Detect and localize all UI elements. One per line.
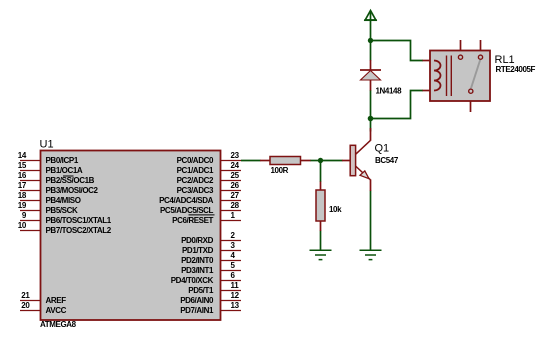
svg-text:17: 17 [18, 181, 27, 190]
svg-text:ATMEGA8: ATMEGA8 [40, 320, 77, 329]
svg-text:PB2/SS/OC1B: PB2/SS/OC1B [46, 176, 95, 185]
svg-text:PD5/T1: PD5/T1 [188, 286, 214, 295]
svg-text:PC3/ADC3: PC3/ADC3 [177, 186, 214, 195]
svg-text:PD1/TXD: PD1/TXD [182, 246, 214, 255]
svg-text:PB3/MOSI/OC2: PB3/MOSI/OC2 [46, 186, 99, 195]
svg-text:27: 27 [231, 191, 240, 200]
svg-text:PB0/ICP1: PB0/ICP1 [46, 156, 79, 165]
svg-text:PC0/ADC0: PC0/ADC0 [177, 156, 214, 165]
svg-text:PD4/T0/XCK: PD4/T0/XCK [171, 276, 214, 285]
svg-text:25: 25 [231, 171, 240, 180]
svg-text:15: 15 [18, 161, 27, 170]
svg-text:PD3/INT1: PD3/INT1 [181, 266, 214, 275]
svg-text:PC4/ADC4/SDA: PC4/ADC4/SDA [159, 196, 214, 205]
svg-text:PC6/RESET: PC6/RESET [172, 216, 213, 225]
svg-text:PB7/TOSC2/XTAL2: PB7/TOSC2/XTAL2 [46, 226, 112, 235]
svg-text:12: 12 [231, 291, 240, 300]
svg-text:PB5/SCK: PB5/SCK [46, 206, 78, 215]
svg-text:10k: 10k [329, 205, 342, 214]
svg-text:24: 24 [231, 161, 240, 170]
svg-text:16: 16 [18, 171, 27, 180]
svg-text:100R: 100R [271, 166, 289, 175]
svg-text:19: 19 [18, 201, 27, 210]
svg-text:23: 23 [231, 151, 240, 160]
svg-text:PD7/AIN1: PD7/AIN1 [180, 306, 214, 315]
svg-text:PC2/ADC2: PC2/ADC2 [177, 176, 214, 185]
svg-text:13: 13 [231, 301, 240, 310]
svg-text:PC5/ADC5/SCL: PC5/ADC5/SCL [160, 206, 214, 215]
svg-text:PB6/TOSC1/XTAL1: PB6/TOSC1/XTAL1 [46, 216, 112, 225]
svg-text:PC1/ADC1: PC1/ADC1 [177, 166, 214, 175]
svg-text:PD6/AIN0: PD6/AIN0 [180, 296, 214, 305]
svg-text:14: 14 [18, 151, 27, 160]
svg-text:11: 11 [231, 281, 240, 290]
svg-text:26: 26 [231, 181, 240, 190]
svg-text:AREF: AREF [46, 296, 67, 305]
svg-text:18: 18 [18, 191, 27, 200]
svg-text:1N4148: 1N4148 [376, 86, 403, 95]
svg-text:U1: U1 [40, 139, 54, 151]
svg-text:PD2/INT0: PD2/INT0 [181, 256, 214, 265]
svg-text:PD0/RXD: PD0/RXD [181, 236, 213, 245]
svg-text:RTE24005F: RTE24005F [496, 65, 536, 74]
svg-text:PB4/MISO: PB4/MISO [46, 196, 81, 205]
svg-text:28: 28 [231, 201, 240, 210]
svg-text:10: 10 [18, 221, 27, 230]
svg-text:BC547: BC547 [375, 156, 399, 165]
svg-text:Q1: Q1 [375, 143, 390, 155]
svg-text:20: 20 [21, 301, 30, 310]
svg-text:21: 21 [21, 291, 30, 300]
svg-text:PB1/OC1A: PB1/OC1A [46, 166, 83, 175]
svg-text:AVCC: AVCC [46, 306, 67, 315]
